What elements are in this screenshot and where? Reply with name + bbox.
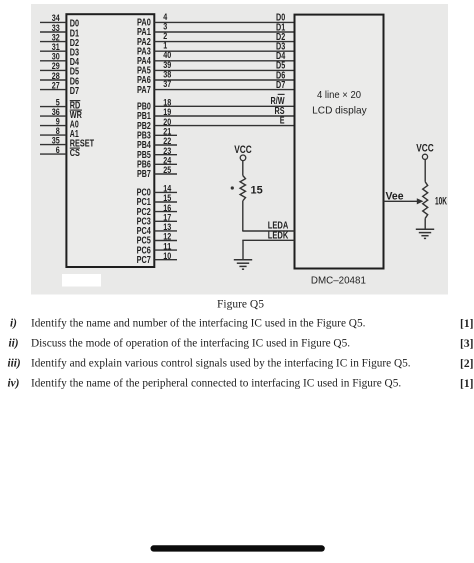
wire: PC2 (pin 16) stub: [137, 203, 177, 218]
svg-text:20: 20: [163, 117, 171, 127]
wire: PB6 (pin 24) stub: [137, 156, 177, 171]
svg-text:CS: CS: [70, 148, 80, 159]
wire: PC7 (pin 10) stub: [137, 251, 177, 266]
wire: pin 35 (RESET) control lead: [40, 135, 95, 149]
svg-text:[2]: [2]: [460, 358, 473, 370]
svg-text:PC7: PC7: [137, 255, 151, 266]
wire: pin 33 (D1) left lead: [40, 23, 79, 40]
svg-text:5: 5: [56, 97, 60, 107]
svg-text:16: 16: [163, 203, 171, 213]
svg-text:24: 24: [163, 156, 171, 166]
svg-text:12: 12: [163, 232, 171, 242]
svg-text:29: 29: [52, 61, 60, 71]
wire: PA0 (pin 4) to LCD D0: [137, 12, 295, 29]
wire: PA1 (pin 3) to LCD D1: [137, 21, 295, 38]
svg-text:37: 37: [163, 79, 171, 89]
svg-text:VCC: VCC: [416, 143, 434, 155]
svg-text:40: 40: [163, 50, 171, 60]
svg-text:6: 6: [56, 145, 60, 155]
svg-text:[1]: [1]: [460, 318, 473, 330]
wire: VCC to resistor R1: [242, 161, 244, 176]
wire: PB3 (pin 21) stub: [137, 127, 177, 142]
wire: pin 32 (D2) left lead: [40, 32, 79, 49]
wire: pin 27 (D7) left lead: [40, 80, 79, 97]
wire: PB0 (pin 18) to LCD R-W: [137, 94, 295, 112]
wire: LEDK net: [242, 231, 294, 242]
svg-text:11: 11: [163, 241, 171, 251]
wire: PA7 (pin 37) to LCD D7: [137, 79, 295, 96]
question iv text: [8, 377, 474, 390]
question i text: [10, 317, 473, 330]
footnote asterisk: [231, 186, 234, 189]
svg-text:4 line × 20: 4 line × 20: [317, 89, 361, 101]
svg-text:38: 38: [163, 69, 171, 79]
ground (backlight): [234, 260, 252, 269]
svg-text:14: 14: [163, 184, 171, 194]
wire: VCC to potentiometer: [424, 159, 426, 181]
wire: PC3 (pin 17) stub: [137, 213, 177, 228]
svg-text:D7: D7: [70, 86, 79, 97]
wire: PA4 (pin 40) to LCD D4: [137, 50, 295, 67]
wire: PC5 (pin 12) stub: [137, 232, 177, 247]
svg-text:2: 2: [163, 31, 167, 41]
svg-text:32: 32: [52, 32, 60, 42]
wire: PB1 (pin 19) to LCD RS: [137, 106, 295, 122]
svg-text:PA7: PA7: [137, 85, 151, 96]
svg-text:27: 27: [52, 80, 60, 90]
svg-text:PB7: PB7: [137, 169, 151, 180]
wire: pin 5 (RD) control lead: [40, 97, 81, 111]
question ii text: [9, 337, 474, 350]
svg-text:E: E: [280, 115, 285, 126]
svg-text:18: 18: [163, 98, 171, 108]
wire: pin 29 (D5) left lead: [40, 61, 79, 78]
svg-text:19: 19: [163, 107, 171, 117]
page footer bar: [151, 545, 325, 551]
IC U1 8255 PPI body: [66, 14, 154, 267]
svg-text:21: 21: [163, 127, 171, 137]
svg-text:31: 31: [52, 42, 60, 52]
wire: PA2 (pin 2) to LCD D2: [137, 31, 295, 48]
svg-text:25: 25: [163, 165, 171, 175]
svg-text:15: 15: [163, 193, 171, 203]
wire: PA3 (pin 1) to LCD D3: [137, 41, 295, 58]
question iii text: [8, 357, 474, 370]
svg-text:9: 9: [56, 116, 60, 126]
svg-text:iii): iii): [8, 357, 21, 369]
wire: PC0 (pin 14) stub: [137, 184, 177, 199]
svg-text:28: 28: [52, 71, 60, 81]
wire: PA5 (pin 39) to LCD D5: [137, 60, 295, 77]
svg-text:33: 33: [52, 23, 60, 33]
svg-text:36: 36: [52, 107, 60, 117]
svg-text:DMC–20481: DMC–20481: [311, 274, 366, 286]
svg-text:i): i): [10, 317, 17, 329]
wire: pin 31 (D3) left lead: [40, 42, 79, 59]
wire: pin 28 (D6) left lead: [40, 71, 79, 88]
svg-text:22: 22: [163, 136, 171, 146]
ground (contrast pot): [416, 229, 434, 238]
potentiometer VR1 10K: [423, 182, 428, 219]
svg-text:4: 4: [163, 12, 167, 22]
svg-text:34: 34: [52, 13, 60, 23]
svg-text:15: 15: [251, 185, 263, 197]
power VCC (contrast): [416, 143, 434, 160]
wire: PB7 (pin 25) stub: [137, 165, 177, 180]
wire: pin 9 (A0) control lead: [40, 116, 79, 130]
wire: LEDK to ground: [242, 240, 244, 259]
wire: PC1 (pin 15) stub: [137, 193, 177, 208]
svg-text:VCC: VCC: [234, 144, 252, 156]
correction patch (white-out): [62, 274, 101, 287]
figure scan background: [31, 4, 448, 295]
wire: PB4 (pin 22) stub: [137, 136, 177, 151]
svg-text:10: 10: [163, 251, 171, 261]
wire: PB5 (pin 23) stub: [137, 146, 177, 161]
wire: LEDA net: [242, 221, 294, 232]
svg-text:8: 8: [56, 126, 60, 136]
svg-text:13: 13: [163, 222, 171, 232]
svg-text:ii): ii): [9, 337, 19, 349]
wire: PB2 (pin 20) to LCD E: [137, 115, 295, 131]
svg-text:17: 17: [163, 213, 171, 223]
wire: pin 36 (WR) control lead: [40, 107, 82, 121]
wire: PC6 (pin 11) stub: [137, 241, 177, 256]
wire: PC4 (pin 13) stub: [137, 222, 177, 237]
svg-text:10K: 10K: [435, 196, 447, 208]
power VCC (backlight): [234, 144, 252, 161]
LCD description text: [312, 89, 367, 116]
svg-text:Figure Q5: Figure Q5: [217, 298, 264, 310]
svg-text:3: 3: [163, 21, 167, 31]
wire: pin 34 (D0) left lead: [40, 13, 79, 30]
wire: potentiometer to ground: [424, 218, 426, 229]
wire: pin 8 (A1) control lead: [40, 126, 79, 140]
svg-text:iv): iv): [8, 377, 20, 389]
wire: pin 30 (D4) left lead: [40, 52, 79, 69]
LCD module U2 DMC-20481 body: [295, 15, 384, 269]
wire: pin 6 (CS) control lead: [40, 145, 80, 159]
svg-text:LCD display: LCD display: [312, 104, 367, 116]
wire: Vee to wiper arrow: [384, 191, 424, 205]
svg-text:23: 23: [163, 146, 171, 156]
svg-text:[3]: [3]: [460, 338, 473, 350]
wire: resistor R1 to LEDA: [242, 201, 244, 231]
wire: PA6 (pin 38) to LCD D6: [137, 69, 295, 86]
svg-text:Discuss the mode of operation: Discuss the mode of operation of the int…: [31, 337, 350, 349]
svg-text:Vee: Vee: [386, 191, 404, 203]
svg-text:Identify the name of the perip: Identify the name of the peripheral conn…: [31, 377, 401, 389]
svg-text:Identify and explain various c: Identify and explain various control sig…: [31, 357, 411, 369]
svg-text:39: 39: [163, 60, 171, 70]
svg-text:1: 1: [163, 41, 167, 51]
svg-text:30: 30: [52, 52, 60, 62]
svg-text:[1]: [1]: [460, 378, 473, 390]
svg-text:D7: D7: [276, 80, 286, 91]
svg-text:Identify the name and number o: Identify the name and number of the inte…: [31, 317, 366, 329]
svg-text:LEDK: LEDK: [268, 231, 289, 242]
resistor R1 15 ohm: [240, 176, 245, 201]
svg-text:35: 35: [52, 135, 60, 145]
